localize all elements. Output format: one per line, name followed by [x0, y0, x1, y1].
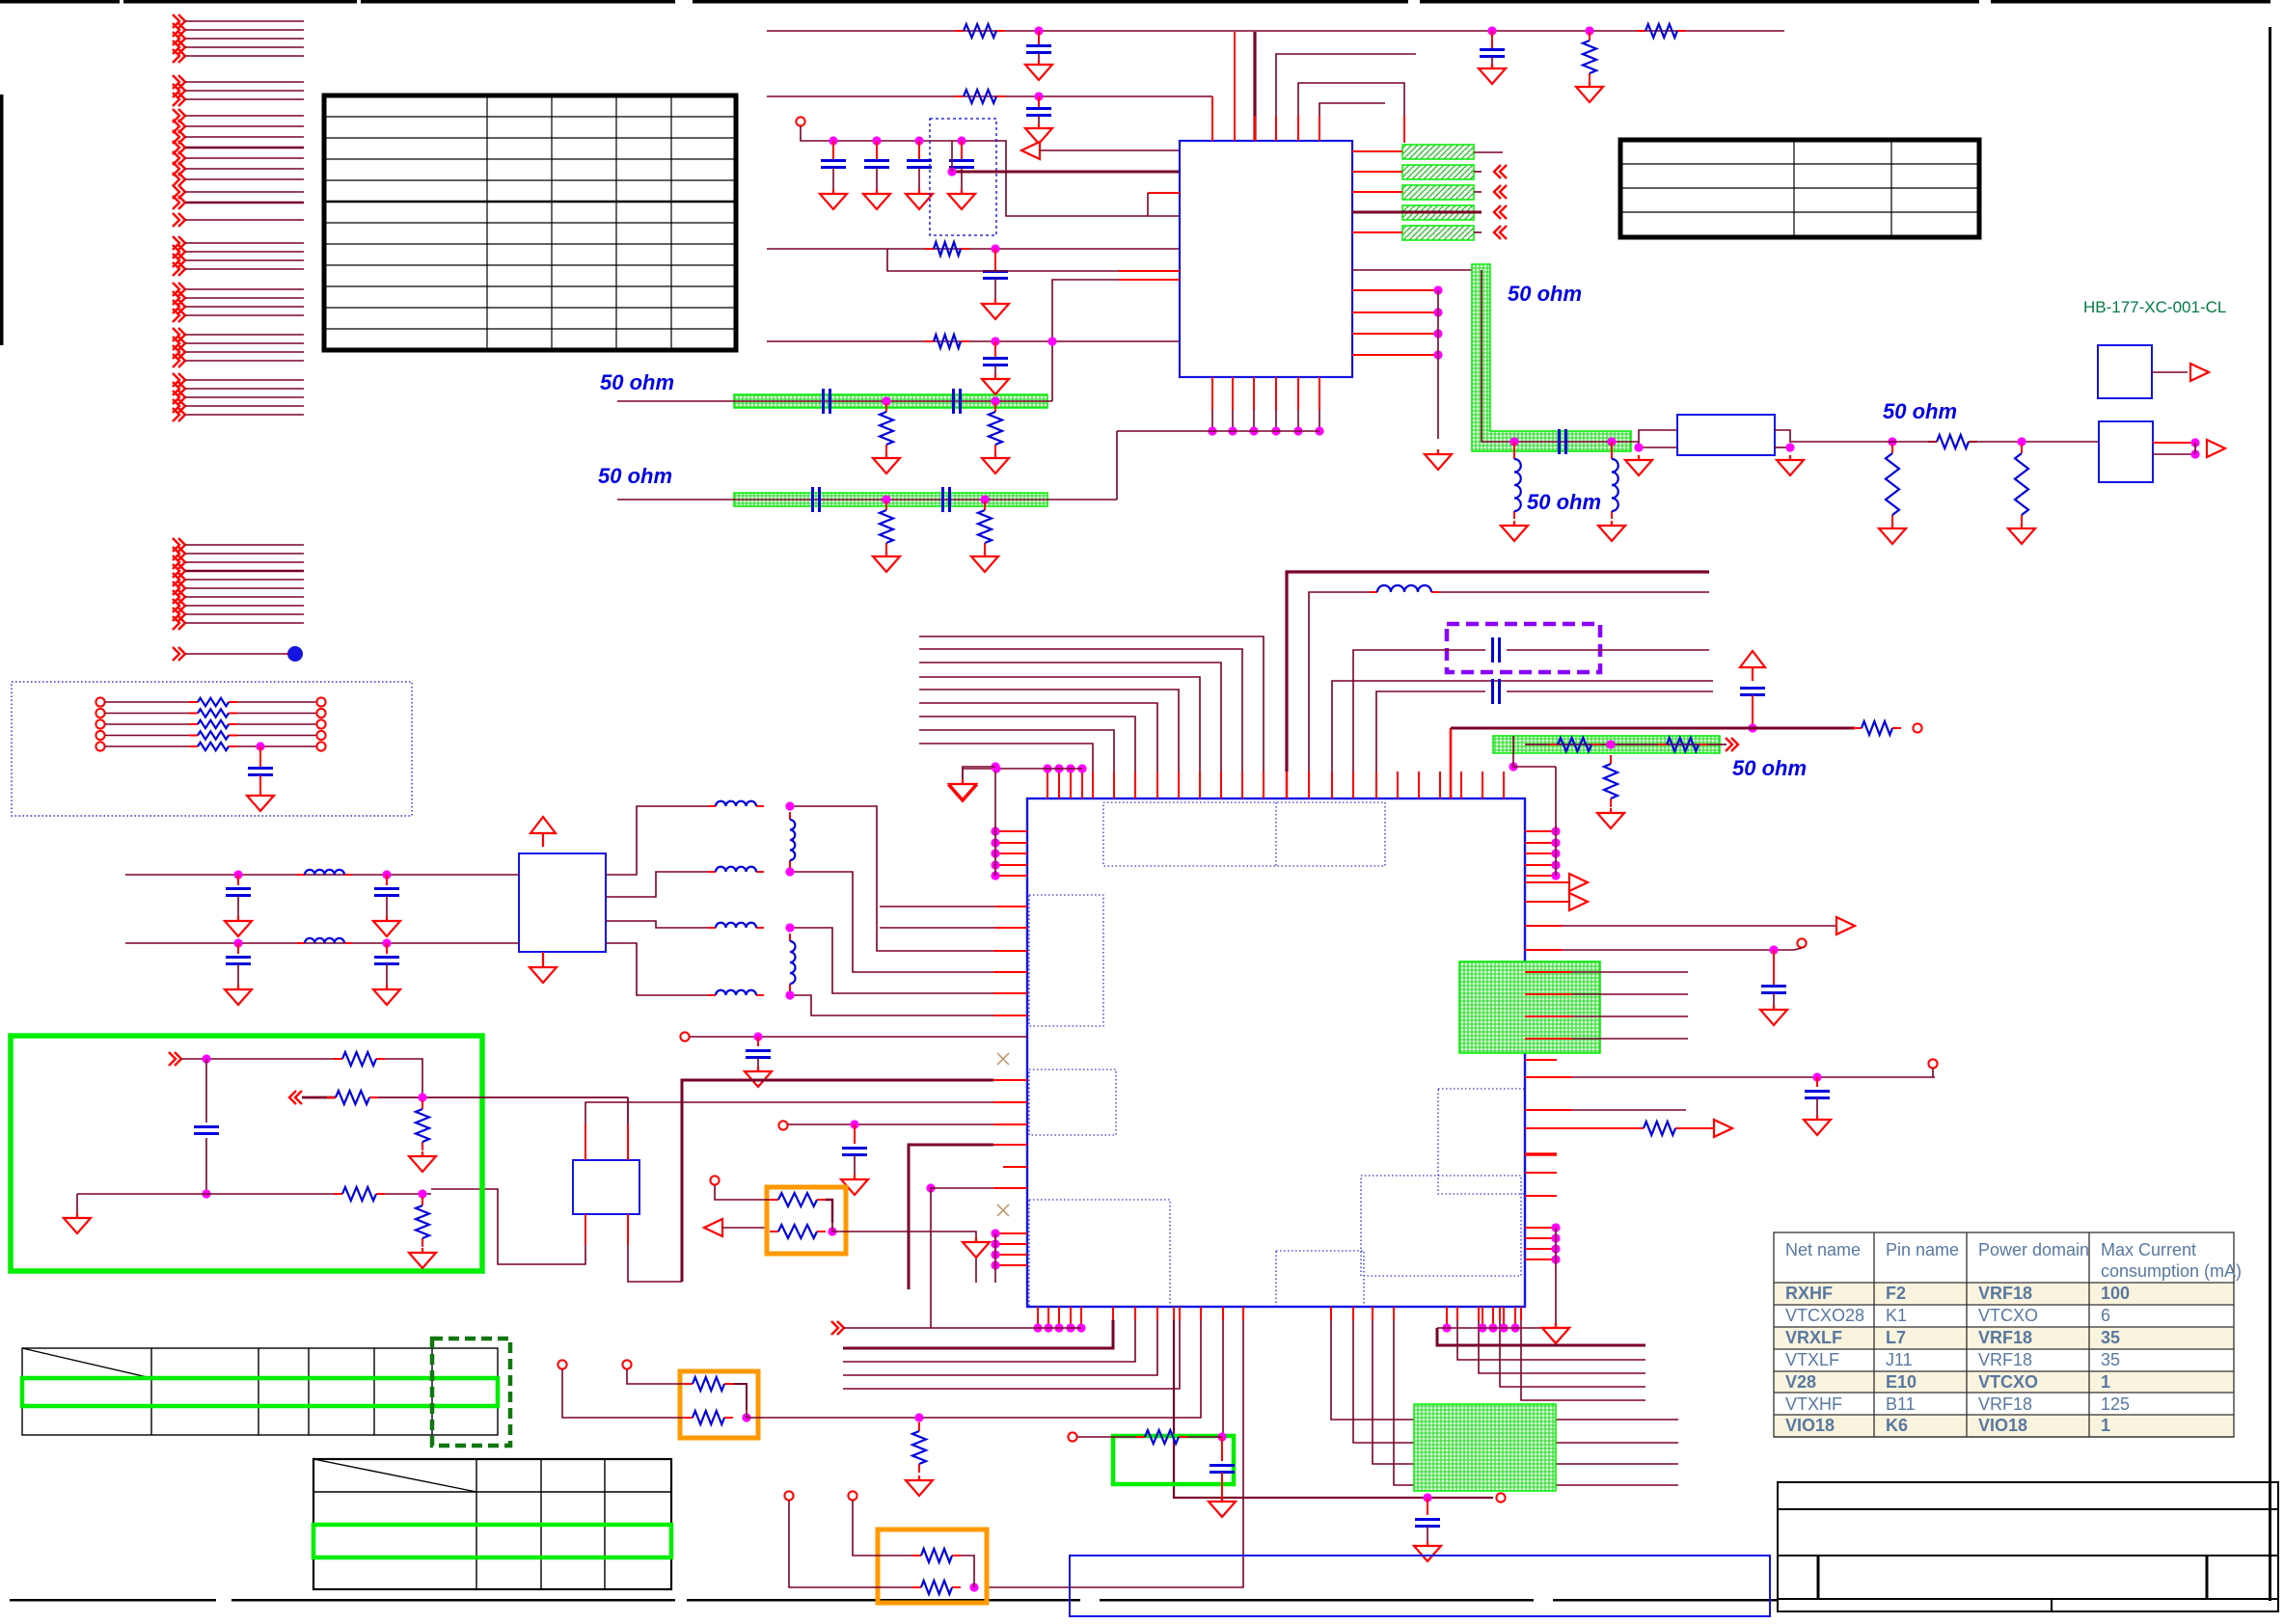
input port group 9: [173, 373, 304, 421]
wire: [733, 1384, 747, 1410]
junction: [1785, 443, 1794, 451]
terminal: [1913, 723, 1921, 732]
inductor L2: [708, 805, 716, 807]
terminal TP1: [796, 117, 804, 125]
U1 right pin group to gnd bus: [1352, 270, 1482, 439]
wire: [385, 1059, 422, 1094]
capacitor C27: [237, 875, 239, 885]
series resistor R30: [95, 697, 104, 706]
terminal: [622, 1360, 631, 1368]
junction: [1888, 437, 1896, 446]
svg-text:Net name: Net name: [1785, 1240, 1861, 1259]
resistor R27: [334, 1193, 342, 1195]
ground: [1597, 808, 1624, 828]
wire to bar: [1352, 150, 1402, 152]
resistor R14: [1928, 441, 1937, 443]
inductor L9: [297, 942, 305, 944]
resistor R17: [1549, 744, 1558, 745]
ground: [373, 985, 400, 1005]
arrow port (left): [1021, 142, 1040, 159]
junction: [1634, 443, 1643, 451]
U6 pin C wire to R28 node: [585, 1214, 586, 1245]
chevron port in: [169, 1052, 181, 1066]
title block: [1778, 1482, 2278, 1611]
net wire to U2 pin: [747, 1320, 1201, 1418]
pin stub: [1003, 1166, 1027, 1168]
chevron port: [831, 1321, 844, 1335]
junction: [382, 870, 391, 879]
series resistor R31: [95, 709, 104, 717]
ground: [1425, 449, 1452, 470]
resistor R15: [1891, 445, 1893, 453]
junction: [947, 167, 956, 176]
ground: [1479, 64, 1506, 84]
ground: [225, 985, 252, 1005]
capacitor C31: [259, 746, 261, 767]
wire: [831, 1223, 833, 1232]
resistor R2: [1589, 32, 1591, 41]
svg-text:VRF18: VRF18: [1978, 1394, 2032, 1414]
wire: [715, 1185, 770, 1200]
resistor pack box (dotted): [12, 682, 412, 816]
net wire with resistor: [1525, 1127, 1636, 1129]
U2 left pin cluster: [949, 762, 1027, 880]
wire: [1331, 771, 1333, 798]
wire: [1969, 441, 2099, 443]
net VDD1 wire (top): [767, 30, 1784, 32]
orange highlight box RP2: [680, 1371, 758, 1438]
U2 left-bottom pin cluster: [963, 1229, 1027, 1283]
net TL2 wire: [617, 499, 1117, 501]
wire: [790, 806, 993, 951]
ground: [906, 189, 933, 209]
wire: [205, 1138, 207, 1194]
IC U2: [1027, 798, 1525, 1307]
net VDD2 wire: [767, 95, 1212, 97]
wire to bar: [1352, 171, 1402, 173]
junction: [850, 1120, 858, 1128]
resistor R3: [1637, 30, 1645, 32]
wire to bar: [1352, 191, 1402, 193]
U6 pin B wire (thick from HB1): [627, 1123, 629, 1160]
resistor R7: [925, 248, 934, 250]
ground: [841, 1175, 868, 1195]
ground: [64, 1213, 91, 1233]
svg-text:VRF18: VRF18: [1978, 1350, 2032, 1369]
junction: [382, 938, 391, 947]
U2 bottom nested wires (left): [843, 1307, 1180, 1389]
terminal: [1496, 1493, 1505, 1502]
net wire to U6: [378, 1096, 628, 1098]
svg-text:Max Current: Max Current: [2101, 1240, 2196, 1259]
note box (blue): [1070, 1556, 1770, 1616]
resistor R18: [1658, 744, 1667, 745]
net VMID wire: [1525, 949, 1563, 951]
arrow port: [1836, 917, 1855, 934]
ground: [1598, 521, 1625, 541]
U4 output wires: [2153, 442, 2195, 444]
chevron port out: [1726, 738, 1738, 751]
microstrip bar TL2: [734, 493, 1047, 506]
parameter table T1: [324, 95, 736, 350]
junction: [1769, 945, 1778, 954]
wire to bar: [1352, 231, 1402, 233]
resistor R16: [2021, 445, 2023, 453]
capacitor C6: [876, 141, 878, 160]
resistor R44: [684, 1417, 693, 1419]
SAW filter FL1: [1677, 415, 1775, 455]
U2 bottom-left pin cluster: [1008, 1307, 1086, 1333]
junction: [785, 923, 794, 932]
junction: [2017, 437, 2026, 446]
wire: [627, 1369, 684, 1384]
input port group 1: [173, 14, 304, 63]
terminal TP3: [778, 1121, 787, 1129]
net RFIN- wire: [125, 942, 519, 944]
terminal TP2: [680, 1032, 689, 1041]
ground: [1025, 123, 1052, 144]
dark-green dashed column highlight: [432, 1339, 510, 1446]
capacitor C30: [386, 943, 388, 954]
input port group 6: [173, 236, 304, 276]
sheet border top: [0, 0, 120, 4]
junction: [1217, 1432, 1226, 1441]
series resistor R32: [95, 719, 104, 728]
U3 output wire: [2152, 371, 2188, 373]
wire: [790, 995, 993, 1015]
junction TL1a: [882, 396, 890, 405]
ground: [1209, 1497, 1236, 1517]
capacitor C5: [832, 141, 834, 160]
junction: [991, 337, 999, 345]
wire: [826, 1200, 832, 1223]
svg-text:50 ohm: 50 ohm: [600, 370, 674, 394]
svg-text:L7: L7: [1886, 1328, 1906, 1347]
resistor R12: [885, 501, 887, 510]
junction: [1748, 723, 1756, 732]
capacitor C24: [1816, 1077, 1818, 1087]
series capacitor C10: [824, 389, 830, 414]
capacitor C1: [1038, 31, 1040, 45]
svg-text:consumption (mA): consumption (mA): [2101, 1261, 2242, 1281]
arrow port out: [2190, 364, 2209, 381]
wire: [1439, 591, 1709, 593]
junction: [233, 938, 242, 947]
inductor L8: [297, 874, 305, 876]
resistor R25: [327, 1096, 336, 1098]
ground: [1501, 521, 1528, 541]
resistor R40: [1136, 1436, 1145, 1438]
net wire with terminal: [1173, 1307, 1175, 1320]
junction: [418, 1189, 426, 1198]
balun U5: [519, 853, 606, 952]
svg-text:VTXLF: VTXLF: [1785, 1350, 1839, 1369]
series capacitor C12: [813, 487, 820, 512]
net VREF wire: [690, 1036, 1027, 1038]
net wire: [1525, 1076, 1572, 1078]
IC U1: [1180, 141, 1352, 377]
junction: [1509, 437, 1518, 446]
resistor R20: [1853, 727, 1862, 729]
resistor R22: [770, 1199, 778, 1201]
capacitor C22: [1740, 689, 1765, 695]
capacitor C26: [854, 1124, 856, 1144]
junction: [1487, 26, 1496, 35]
orange highlight box RP3: [878, 1529, 987, 1603]
ground: [1804, 1115, 1831, 1135]
bar tail + chevron out: [1474, 211, 1482, 213]
junction TL2a: [882, 495, 890, 503]
junction: [256, 742, 264, 750]
U2 top-left bus wires: [919, 636, 1264, 798]
junction: [1607, 437, 1616, 446]
U1 right bus bars: [1402, 145, 1474, 240]
ground: [225, 916, 252, 936]
terminal: [1928, 1059, 1937, 1068]
net wire: [1525, 1109, 1572, 1111]
net TX wire through L-trace: [1482, 270, 1631, 442]
wire: [1077, 1436, 1140, 1438]
junction: [2190, 449, 2199, 458]
pin stub: [1525, 1059, 1557, 1061]
resistor R29: [918, 1422, 920, 1431]
module U4: [2099, 421, 2153, 482]
capacitor C4: [1038, 96, 1040, 108]
U2 right bus wires through pad: [1525, 972, 1688, 1039]
ground: [1760, 1005, 1787, 1025]
U2 right-bottom pin cluster: [1525, 1223, 1569, 1343]
crystal coupling box (purple dashed): [1447, 624, 1600, 672]
junction: [2190, 438, 2199, 447]
thick net through bar row 4: [1352, 211, 1482, 214]
capacitor C8: [961, 141, 963, 160]
net wire thick: [302, 1096, 336, 1099]
capacitor C23: [1773, 950, 1775, 986]
U2 top power cluster: [949, 764, 1087, 801]
U2 left stub wires: [880, 906, 995, 907]
microstrip bar TL3: [1493, 736, 1720, 753]
resistor R13: [984, 501, 986, 510]
svg-text:VIO18: VIO18: [1978, 1416, 2027, 1435]
wire: [2194, 443, 2196, 454]
svg-text:35: 35: [2101, 1328, 2120, 1347]
junction: [828, 1227, 836, 1235]
resistor R1: [955, 30, 964, 32]
terminal: [710, 1176, 719, 1184]
inductor L4: [789, 812, 791, 820]
wire: [790, 928, 993, 993]
ground: [982, 299, 1009, 319]
svg-text:125: 125: [2101, 1394, 2130, 1414]
U1 left pin wires: [887, 193, 1180, 346]
capacitor C21: [1493, 679, 1500, 704]
ground: [409, 1248, 436, 1268]
svg-text:VRF18: VRF18: [1978, 1328, 2032, 1347]
junction: [914, 1413, 923, 1421]
arrow port: [1714, 1120, 1732, 1137]
junction: [1423, 1493, 1431, 1502]
net TL1 wire: [617, 400, 1052, 402]
junction: [1585, 26, 1593, 35]
junction TL2b: [980, 495, 989, 503]
svg-text:HB-177-XC-001-CL: HB-177-XC-001-CL: [2083, 298, 2226, 316]
svg-text:E10: E10: [1886, 1372, 1917, 1392]
net power table: [1774, 1232, 2242, 1437]
ground: [971, 552, 998, 572]
U2 right hatched pad: [1459, 961, 1600, 1053]
junction: [1812, 1072, 1821, 1081]
sheet border right: [2269, 27, 2271, 1601]
net wire: [181, 1058, 342, 1060]
input port group 4: [173, 185, 304, 209]
ground: [873, 453, 900, 474]
wire to green box: [1222, 1307, 1224, 1320]
wire: [1187, 1436, 1222, 1438]
net through TL3: [1525, 744, 1727, 745]
wire: [1040, 149, 1180, 151]
ground: [948, 189, 975, 209]
wire: [76, 1194, 78, 1213]
capacitor C33: [1427, 1498, 1428, 1515]
junction: [233, 870, 242, 879]
svg-text:1: 1: [2101, 1416, 2110, 1435]
arrow port out: [2207, 440, 2225, 457]
inductor L5: [708, 927, 716, 929]
wire to bar: [1352, 211, 1402, 213]
svg-text:100: 100: [2101, 1284, 2130, 1303]
svg-text:50 ohm: 50 ohm: [1527, 490, 1601, 514]
resistor R41: [912, 1555, 921, 1556]
ground: [1025, 60, 1052, 80]
junction: [1034, 92, 1043, 100]
series capacitor C15: [1560, 429, 1566, 454]
pin stub: [1525, 1172, 1557, 1174]
capacitor C20: [1493, 637, 1500, 663]
wire to resistor pack: [722, 1227, 767, 1229]
resistor R11: [994, 403, 996, 412]
input port single with node dot: [173, 646, 303, 662]
green highlight box HB2: [1113, 1436, 1234, 1484]
sheet border bottom: [10, 1599, 216, 1602]
svg-text:VTXHF: VTXHF: [1785, 1394, 1842, 1414]
inductor L11: [1611, 442, 1613, 451]
input port group 10: [173, 538, 304, 630]
filter output wires: [1775, 430, 1836, 442]
U2 right pin cluster: [1509, 736, 1560, 880]
svg-text:RXHF: RXHF: [1785, 1284, 1833, 1303]
net XTAL1 wire: [1352, 771, 1354, 798]
capacitor C14: [994, 341, 996, 358]
net TCXO wire with inductor: [1308, 771, 1310, 798]
net RFIN+ wire: [125, 874, 519, 876]
resistor R23: [770, 1231, 778, 1232]
series capacitor C11: [954, 389, 961, 414]
net wire: [788, 1123, 993, 1125]
svg-text:F2: F2: [1886, 1284, 1906, 1303]
ground: [247, 791, 274, 811]
arrow port left: [704, 1219, 722, 1236]
svg-text:K1: K1: [1886, 1306, 1907, 1325]
net wire: [832, 1232, 976, 1283]
parameter table T2: [1620, 140, 1979, 237]
wire: [853, 1501, 912, 1556]
ground: [1576, 82, 1603, 102]
ground arrow below U5: [530, 952, 557, 983]
terminal: [1797, 938, 1806, 947]
wire: [961, 1556, 974, 1579]
wire: [1836, 441, 1937, 443]
wire from RP3: [1242, 1307, 1244, 1320]
wire: [562, 1369, 684, 1418]
microstrip L-trace: [1472, 264, 1631, 451]
svg-text:VTCXO: VTCXO: [1978, 1372, 2038, 1392]
ground: [982, 453, 1009, 474]
decoupling rail wire: [801, 126, 1180, 216]
net out wire with arrow: [1525, 925, 1563, 927]
dnp box (dashed): [930, 119, 996, 235]
net TX_EN thick wire: [909, 1145, 993, 1289]
junction: [872, 136, 881, 145]
junction: [926, 1183, 935, 1192]
pin table T4: [313, 1459, 671, 1589]
terminal: [557, 1360, 566, 1368]
svg-text:VRXLF: VRXLF: [1785, 1328, 1842, 1347]
resistor R26: [421, 1100, 423, 1109]
net RXIN1 wire: [767, 248, 1180, 250]
ground: [906, 1475, 933, 1496]
svg-text:Pin name: Pin name: [1886, 1240, 1959, 1259]
junction: [202, 1054, 210, 1063]
junction TL1b: [991, 396, 999, 405]
ground: [745, 1067, 772, 1087]
wire (thick net): [952, 171, 1180, 174]
net RX_EN thick wire: [682, 1080, 993, 1282]
U1 bottom pin wires: [1117, 377, 1324, 436]
junction: [202, 1189, 210, 1198]
svg-text:50 ohm: 50 ohm: [1883, 399, 1957, 423]
U2 bottom power cluster + thick net: [1437, 1307, 1645, 1345]
capacitor C9: [994, 249, 996, 271]
net RXIN2 wire: [767, 340, 1180, 342]
resistor R8: [925, 340, 934, 342]
wire: [1932, 1069, 1934, 1077]
junction: [829, 136, 837, 145]
terminal: [848, 1491, 856, 1500]
chevron port in 2: [289, 1091, 302, 1104]
ground: [1414, 1541, 1441, 1561]
junction: [1606, 740, 1615, 748]
junction: [991, 244, 999, 253]
junction: [418, 1093, 426, 1101]
power arrow: [530, 817, 556, 847]
wire: [789, 1501, 912, 1587]
capacitor C2: [1491, 31, 1493, 49]
sheet border left: [0, 95, 4, 345]
junction: [1034, 26, 1043, 35]
resistor R42: [912, 1586, 921, 1588]
series resistor R34: [95, 742, 104, 750]
ground: [409, 1151, 436, 1172]
svg-text:Power domain: Power domain: [1978, 1240, 2089, 1259]
resistor R10: [885, 403, 887, 412]
X no-connect: [997, 1053, 1009, 1065]
module U3: [2098, 345, 2152, 398]
inductor L7: [789, 934, 791, 941]
ground: [873, 552, 900, 572]
svg-text:V28: V28: [1785, 1372, 1816, 1392]
capacitor C7: [918, 141, 920, 160]
terminal: [1068, 1432, 1076, 1441]
